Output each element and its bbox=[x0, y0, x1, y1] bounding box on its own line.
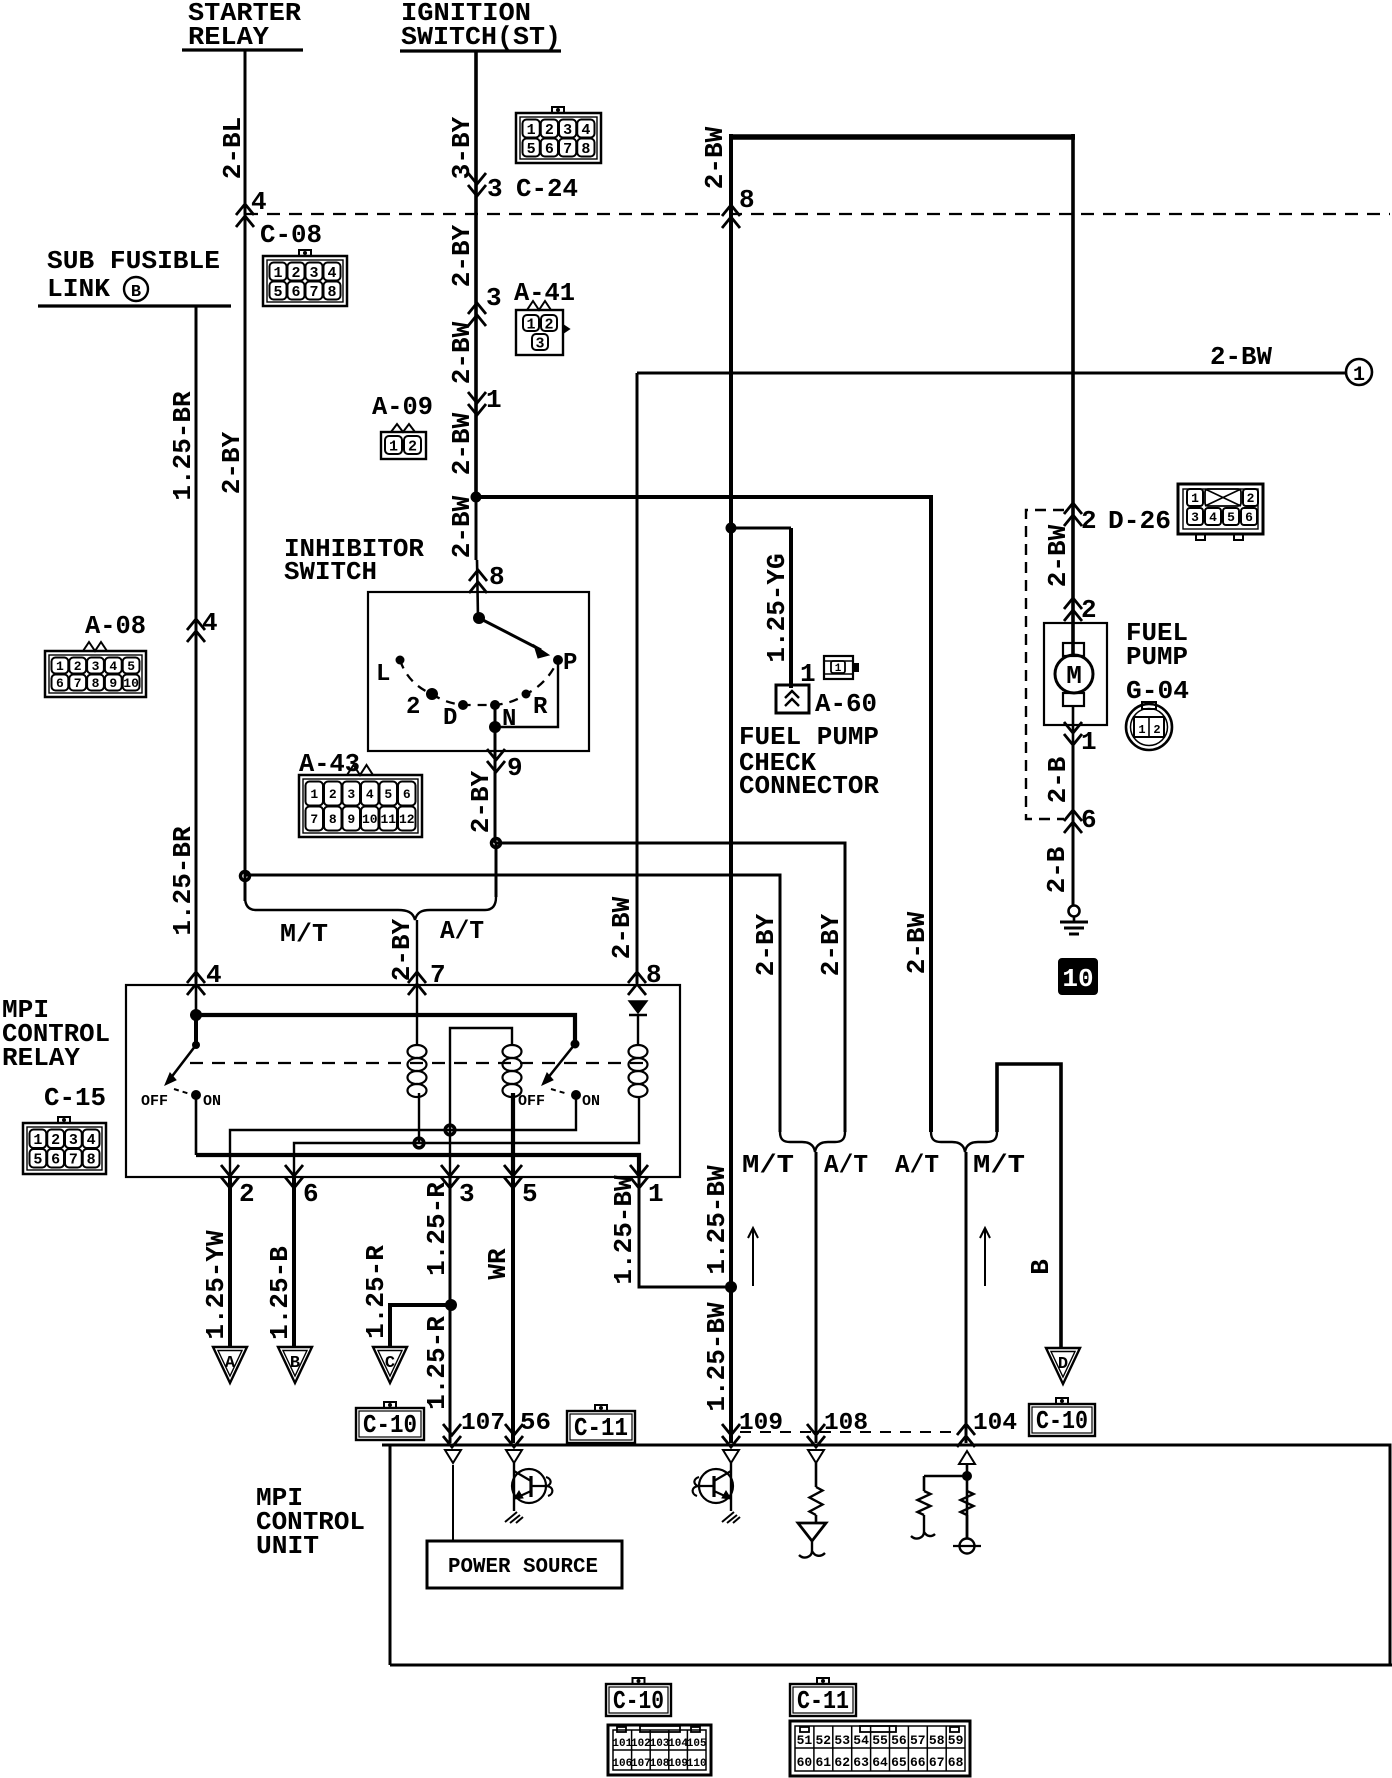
node junction relay pin4 bbox=[190, 1009, 202, 1021]
connector C-10 label box upper bbox=[384, 1402, 396, 1408]
svg-text:1.25-BW: 1.25-BW bbox=[702, 1165, 732, 1275]
svg-text:1.25-R: 1.25-R bbox=[422, 1182, 452, 1276]
svg-text:5: 5 bbox=[273, 284, 282, 301]
connector C-10 label box bottom bbox=[633, 1678, 645, 1684]
svg-text:B: B bbox=[290, 1354, 300, 1373]
svg-text:C-24: C-24 bbox=[516, 174, 578, 204]
wire 1.25-YG branch to A-60 bbox=[731, 527, 791, 530]
inhibitor pin 8 chevron bbox=[469, 570, 487, 593]
svg-text:8: 8 bbox=[92, 676, 100, 691]
wire 2-BW to terminal 1 horizontal bbox=[637, 372, 1346, 375]
flow direction arrow 104 bbox=[984, 1228, 986, 1286]
svg-text:2-BW: 2-BW bbox=[902, 911, 932, 974]
relay switch1 ON contact bbox=[191, 1090, 201, 1100]
svg-text:C-11: C-11 bbox=[797, 1686, 849, 1716]
connector C-11 label box upper bbox=[595, 1405, 607, 1411]
svg-text:2-BW: 2-BW bbox=[447, 321, 477, 384]
wire brace3 to MPI 104 bbox=[965, 1152, 968, 1443]
svg-text:1: 1 bbox=[835, 663, 842, 675]
single pin icon bbox=[824, 656, 853, 679]
svg-text:51: 51 bbox=[797, 1733, 813, 1748]
svg-text:G-04: G-04 bbox=[1126, 676, 1189, 706]
svg-text:A-09: A-09 bbox=[372, 392, 433, 422]
pin 104 output triangle bbox=[959, 1451, 975, 1464]
svg-text:2: 2 bbox=[329, 787, 337, 802]
wire WR pin5 to MPI 56 bbox=[511, 1177, 515, 1443]
diode zener pin 108 bbox=[815, 1515, 818, 1523]
connector C-11 label box bottom bbox=[817, 1678, 829, 1684]
wire P to N column bbox=[495, 660, 558, 727]
svg-text:R: R bbox=[533, 694, 548, 721]
svg-text:55: 55 bbox=[872, 1733, 888, 1748]
svg-text:3: 3 bbox=[309, 265, 318, 282]
svg-text:1: 1 bbox=[273, 265, 282, 282]
svg-text:9: 9 bbox=[109, 676, 117, 691]
svg-text:RELAY: RELAY bbox=[2, 1043, 80, 1073]
svg-text:3: 3 bbox=[92, 659, 100, 674]
ground symbol Q1 bbox=[505, 1512, 523, 1523]
svg-text:2: 2 bbox=[1081, 506, 1097, 536]
svg-text:A/T: A/T bbox=[824, 1150, 868, 1180]
resistor R3 right branch bbox=[961, 1491, 974, 1515]
svg-text:103: 103 bbox=[650, 1738, 670, 1750]
svg-text:RELAY: RELAY bbox=[188, 22, 269, 52]
svg-text:2-BW: 2-BW bbox=[607, 896, 637, 959]
contact N dot bbox=[490, 700, 500, 710]
connector A-43 bbox=[299, 775, 422, 837]
svg-text:2-BY: 2-BY bbox=[466, 770, 496, 833]
wire pin3 to coil2 node bbox=[450, 1028, 512, 1177]
svg-text:A-08: A-08 bbox=[85, 611, 146, 641]
MPI pin 107 chevron bbox=[443, 1424, 461, 1447]
svg-text:6: 6 bbox=[1245, 510, 1253, 525]
svg-text:4: 4 bbox=[251, 187, 267, 217]
svg-text:M: M bbox=[1066, 661, 1082, 691]
svg-text:OFF: OFF bbox=[518, 1093, 545, 1110]
svg-text:61: 61 bbox=[815, 1755, 831, 1770]
wire 2-BW main vertical to MPI pin 109 bbox=[729, 134, 733, 1443]
svg-text:2: 2 bbox=[544, 316, 553, 333]
fuel pump pin 2 chevron bbox=[1064, 598, 1082, 621]
svg-text:1.25-B: 1.25-B bbox=[265, 1246, 295, 1340]
relay output row to pin 1 thick bbox=[196, 1155, 639, 1177]
circled B symbol bbox=[124, 277, 148, 301]
ground symbol Q2 bbox=[722, 1512, 740, 1523]
relay switch2 arm bbox=[547, 1044, 575, 1079]
connector C-24 bbox=[516, 113, 601, 163]
svg-text:6: 6 bbox=[545, 141, 554, 158]
connector C-08 bbox=[263, 256, 347, 306]
svg-text:3: 3 bbox=[69, 1132, 78, 1149]
svg-text:2-BW: 2-BW bbox=[447, 412, 477, 475]
node junction pin1 to main bbox=[725, 1281, 737, 1293]
svg-text:2: 2 bbox=[291, 265, 300, 282]
svg-text:11: 11 bbox=[380, 812, 396, 827]
wire starter relay 2-BL vertical bbox=[244, 50, 247, 901]
svg-text:C: C bbox=[385, 1354, 395, 1373]
relay switch2 OFF-ON dashed link bbox=[551, 1089, 568, 1094]
svg-text:2: 2 bbox=[1247, 491, 1255, 506]
connector C-24 pin 3 chevron bbox=[468, 173, 486, 196]
svg-text:106: 106 bbox=[612, 1758, 632, 1770]
svg-text:B: B bbox=[1026, 1259, 1056, 1275]
svg-text:ON: ON bbox=[203, 1093, 221, 1110]
svg-text:1: 1 bbox=[56, 659, 64, 674]
svg-text:7: 7 bbox=[74, 676, 82, 691]
relay diode pin8 bbox=[629, 1001, 647, 1013]
svg-text:2: 2 bbox=[545, 122, 554, 139]
svg-text:6: 6 bbox=[303, 1179, 319, 1209]
svg-text:LINK: LINK bbox=[47, 274, 110, 304]
node junction inhibitor A/T split bbox=[492, 839, 501, 848]
relay coil1 bbox=[408, 1045, 427, 1058]
svg-text:C-15: C-15 bbox=[44, 1083, 106, 1113]
svg-text:63: 63 bbox=[853, 1755, 869, 1770]
svg-text:3: 3 bbox=[347, 787, 355, 802]
svg-text:3: 3 bbox=[1191, 510, 1199, 525]
svg-text:66: 66 bbox=[910, 1755, 926, 1770]
svg-text:9: 9 bbox=[347, 812, 355, 827]
svg-text:D: D bbox=[443, 705, 457, 732]
svg-text:6: 6 bbox=[51, 1152, 60, 1169]
svg-text:UNIT: UNIT bbox=[256, 1531, 319, 1561]
svg-text:7: 7 bbox=[563, 141, 572, 158]
relay coil2 bbox=[503, 1045, 522, 1058]
svg-text:1.25-BR: 1.25-BR bbox=[168, 826, 198, 936]
wire B to triangle D bbox=[997, 1064, 1061, 1348]
svg-text:109: 109 bbox=[668, 1758, 688, 1770]
svg-text:64: 64 bbox=[872, 1755, 888, 1770]
wire 107 to power source bbox=[452, 1465, 454, 1541]
svg-text:2-BL: 2-BL bbox=[218, 117, 248, 179]
node junction 1.25-R branch bbox=[445, 1299, 457, 1311]
svg-text:ON: ON bbox=[582, 1093, 600, 1110]
svg-text:A/T: A/T bbox=[895, 1150, 939, 1180]
wire 2-BW top bus horizontal bbox=[729, 134, 1075, 140]
svg-text:2-BY: 2-BY bbox=[447, 224, 477, 287]
svg-text:53: 53 bbox=[834, 1733, 850, 1748]
wire N output bbox=[494, 705, 497, 843]
connector C-11 pinout bbox=[790, 1721, 970, 1776]
svg-text:1: 1 bbox=[33, 1132, 42, 1149]
svg-text:N: N bbox=[502, 706, 516, 733]
contact P dot bbox=[553, 655, 563, 665]
svg-text:SWITCH: SWITCH bbox=[284, 557, 377, 587]
svg-text:4: 4 bbox=[366, 787, 374, 802]
svg-text:SWITCH(ST): SWITCH(ST) bbox=[401, 22, 561, 52]
svg-text:58: 58 bbox=[929, 1733, 945, 1748]
svg-text:A/T: A/T bbox=[440, 916, 484, 946]
inhibitor switch box bbox=[368, 592, 589, 751]
svg-text:1: 1 bbox=[1081, 727, 1097, 757]
svg-text:1: 1 bbox=[1353, 364, 1365, 387]
grounding point 10 black box bbox=[1059, 959, 1097, 994]
svg-text:2: 2 bbox=[1153, 723, 1160, 737]
wire 2-B pump to tank unit bbox=[1072, 744, 1075, 906]
fuel pump box bbox=[1044, 623, 1107, 725]
svg-text:4: 4 bbox=[87, 1132, 96, 1149]
MPI internal dashed link bbox=[740, 1431, 958, 1433]
svg-text:56: 56 bbox=[891, 1733, 907, 1748]
svg-text:1.25-BW: 1.25-BW bbox=[609, 1175, 639, 1285]
node junction below N bbox=[489, 721, 501, 733]
fuel pump motor symbol M bbox=[1072, 612, 1075, 643]
svg-text:5: 5 bbox=[33, 1152, 42, 1169]
node junction starter A/T split bbox=[241, 872, 250, 881]
MPI pin 109 chevron bbox=[722, 1424, 740, 1447]
svg-text:54: 54 bbox=[853, 1733, 869, 1748]
inhibitor position dashed arc bbox=[400, 660, 558, 705]
svg-text:3: 3 bbox=[563, 122, 572, 139]
svg-text:107: 107 bbox=[461, 1410, 505, 1437]
fuel pump dashed component box bbox=[1026, 510, 1064, 819]
pin 107 input triangle bbox=[445, 1450, 461, 1463]
connector C-08 pin 4 chevron bbox=[236, 204, 254, 227]
resistor R1 pin 108 bbox=[815, 1463, 818, 1487]
svg-text:5: 5 bbox=[1227, 510, 1235, 525]
svg-text:2-BW: 2-BW bbox=[1210, 342, 1272, 372]
brace M/T-A/T for relay pin 7 bbox=[245, 897, 496, 920]
svg-text:3: 3 bbox=[535, 335, 544, 352]
svg-text:1.25-R: 1.25-R bbox=[422, 1316, 452, 1410]
svg-text:104: 104 bbox=[973, 1410, 1017, 1437]
transistor Q1 pin 56 bbox=[513, 1463, 515, 1511]
svg-text:POWER SOURCE: POWER SOURCE bbox=[448, 1556, 598, 1579]
svg-text:105: 105 bbox=[687, 1738, 707, 1750]
svg-text:10: 10 bbox=[1062, 964, 1093, 994]
svg-text:10: 10 bbox=[362, 812, 378, 827]
svg-text:10: 10 bbox=[123, 676, 139, 691]
svg-text:6: 6 bbox=[291, 284, 300, 301]
relay pin 7 chevron bbox=[408, 972, 426, 995]
sensor network pin 104 bbox=[966, 1464, 969, 1538]
wire switch1 ON to output row bbox=[195, 1095, 198, 1155]
svg-text:2: 2 bbox=[406, 694, 420, 721]
svg-text:2: 2 bbox=[1081, 595, 1097, 625]
ground symbol fuel pump bbox=[1069, 906, 1080, 917]
svg-text:12: 12 bbox=[399, 812, 415, 827]
svg-text:7: 7 bbox=[309, 284, 318, 301]
MPI control relay box bbox=[126, 985, 680, 1177]
svg-text:2-B: 2-B bbox=[1043, 756, 1073, 803]
connector A-60 box with chevron bbox=[776, 685, 809, 713]
wire 2-BW A/T feed bbox=[476, 497, 931, 1132]
svg-text:P: P bbox=[563, 650, 577, 677]
wire 2-BW fuel pump feed vertical bbox=[1071, 134, 1075, 656]
fuel pump pin 1 chevron bbox=[1064, 722, 1082, 745]
svg-text:101: 101 bbox=[612, 1738, 632, 1750]
svg-text:57: 57 bbox=[910, 1733, 926, 1748]
connector A-09 pin 1 chevron bbox=[468, 392, 486, 415]
relay switch1 OFF-ON dashed link bbox=[174, 1089, 190, 1094]
svg-text:1: 1 bbox=[648, 1179, 664, 1209]
svg-text:67: 67 bbox=[929, 1755, 945, 1770]
svg-text:1.25-BR: 1.25-BR bbox=[168, 391, 198, 501]
svg-text:5: 5 bbox=[522, 1179, 538, 1209]
svg-text:8: 8 bbox=[739, 185, 755, 215]
svg-text:65: 65 bbox=[891, 1755, 907, 1770]
svg-text:4: 4 bbox=[1209, 510, 1217, 525]
triangle terminal D bbox=[1046, 1348, 1080, 1384]
svg-text:1: 1 bbox=[486, 385, 502, 415]
MPI pin 108 chevron bbox=[807, 1424, 825, 1447]
wire brace2 to MPI 108 bbox=[815, 1152, 818, 1443]
svg-text:8: 8 bbox=[581, 141, 590, 158]
svg-text:M/T: M/T bbox=[973, 1150, 1025, 1180]
terminal circle pin 104 bbox=[960, 1539, 975, 1554]
inhibitor pin 9 chevron bbox=[487, 749, 505, 772]
relay pin 1 chevron bbox=[630, 1165, 648, 1188]
svg-text:2-B: 2-B bbox=[1042, 846, 1072, 893]
svg-text:B: B bbox=[131, 283, 141, 302]
svg-text:SUB FUSIBLE: SUB FUSIBLE bbox=[47, 246, 220, 276]
svg-text:5: 5 bbox=[527, 141, 536, 158]
node junction ignition to fuel-pump-relay feed bbox=[471, 492, 482, 503]
wire 2-BW relay pin 8 vertical bbox=[636, 373, 639, 983]
MPI pin 104 chevron bbox=[957, 1424, 975, 1447]
svg-text:1.25-R: 1.25-R bbox=[361, 1245, 391, 1339]
node junction A-60 branch bbox=[726, 523, 737, 534]
svg-text:4: 4 bbox=[581, 122, 590, 139]
svg-text:2: 2 bbox=[408, 438, 417, 455]
relay internal bus pin4 to switch2 bbox=[196, 1015, 575, 1044]
brace A/T-M/T for MPI 104 bbox=[931, 1132, 997, 1152]
wire 2-BW into inhibitor bbox=[475, 497, 478, 560]
svg-text:2-BY: 2-BY bbox=[751, 913, 781, 976]
svg-text:3-BY: 3-BY bbox=[447, 116, 477, 179]
svg-text:D: D bbox=[1058, 1355, 1068, 1374]
svg-text:2-BY: 2-BY bbox=[387, 918, 417, 981]
wire ignition switch 3-BY/2-BY/2-BW vertical bbox=[474, 51, 478, 497]
svg-text:CONNECTOR: CONNECTOR bbox=[739, 771, 879, 801]
svg-text:C-11: C-11 bbox=[574, 1413, 628, 1443]
connector A-08 bbox=[45, 651, 146, 697]
svg-text:108: 108 bbox=[650, 1758, 670, 1770]
wire 1.25-BW pin1 to main 2-BW bbox=[639, 1177, 731, 1287]
wire brace1 to relay pin 7 bbox=[416, 920, 418, 983]
connector A-41 bbox=[516, 310, 563, 355]
svg-text:8: 8 bbox=[87, 1152, 96, 1169]
wire coil1 top from pin7 bbox=[416, 983, 418, 1046]
svg-text:2-BW: 2-BW bbox=[1043, 524, 1073, 587]
wire 2-BY inhibitor A/T to brace3 bbox=[496, 843, 845, 1132]
svg-text:56: 56 bbox=[520, 1410, 551, 1437]
svg-text:C-10: C-10 bbox=[363, 1410, 417, 1440]
svg-text:2: 2 bbox=[74, 659, 82, 674]
relay mechanical linkage dashed bbox=[190, 1062, 648, 1064]
svg-text:M/T: M/T bbox=[742, 1150, 794, 1180]
contact D dot bbox=[458, 700, 468, 710]
svg-text:L: L bbox=[376, 661, 390, 688]
pin 109 input triangle bbox=[723, 1450, 739, 1463]
pin 108 input triangle bbox=[808, 1450, 824, 1463]
svg-text:A: A bbox=[225, 1354, 236, 1373]
flow direction arrow 109 bbox=[752, 1228, 754, 1286]
wire inhibitor common bbox=[477, 560, 478, 618]
connector C-15 bbox=[23, 1123, 106, 1174]
relay coil3 bbox=[629, 1045, 648, 1058]
relay pin 3 chevron bbox=[441, 1165, 459, 1188]
svg-text:6: 6 bbox=[56, 676, 64, 691]
contact L dot bbox=[396, 656, 405, 665]
relay ground row pin6 to coil3 bbox=[294, 1097, 639, 1177]
svg-text:68: 68 bbox=[948, 1755, 964, 1770]
contact R dot bbox=[522, 690, 531, 699]
svg-text:9: 9 bbox=[507, 753, 523, 783]
svg-text:7: 7 bbox=[69, 1152, 78, 1169]
pin 56 input triangle bbox=[506, 1450, 522, 1463]
svg-text:1: 1 bbox=[527, 122, 536, 139]
wire diode to coil3 bbox=[637, 1015, 639, 1046]
svg-text:1: 1 bbox=[1138, 723, 1145, 737]
svg-text:C-10: C-10 bbox=[613, 1686, 664, 1716]
svg-text:59: 59 bbox=[948, 1733, 964, 1748]
svg-text:C-08: C-08 bbox=[260, 220, 322, 250]
connector C-10 label box right bbox=[1056, 1398, 1068, 1404]
inhibitor common pivot bbox=[473, 612, 485, 624]
svg-text:5: 5 bbox=[384, 787, 392, 802]
relay pin 2 chevron bbox=[221, 1165, 239, 1188]
svg-text:2-BW: 2-BW bbox=[700, 126, 730, 189]
terminal circled 1 bbox=[1346, 359, 1372, 385]
svg-text:1: 1 bbox=[526, 316, 535, 333]
tank unit pin 6 chevron bbox=[1064, 810, 1082, 833]
svg-text:3: 3 bbox=[487, 174, 503, 204]
svg-text:1: 1 bbox=[389, 438, 398, 455]
triangle terminal A bbox=[213, 1347, 247, 1383]
wire relay pin4 internal bbox=[195, 985, 198, 1015]
connector D-26 pin 2 chevron bbox=[1064, 503, 1082, 526]
svg-text:6: 6 bbox=[403, 787, 411, 802]
relay pin 6 chevron bbox=[285, 1165, 303, 1188]
svg-text:8: 8 bbox=[329, 812, 337, 827]
node junction coil1 to ground row bbox=[414, 1138, 424, 1148]
svg-text:52: 52 bbox=[815, 1733, 831, 1748]
svg-text:1.25-YG: 1.25-YG bbox=[762, 553, 792, 662]
svg-text:5: 5 bbox=[127, 659, 135, 674]
svg-text:2-BW: 2-BW bbox=[447, 495, 477, 558]
relay pin 4 chevron bbox=[187, 972, 205, 995]
relay pin 8 chevron bbox=[628, 972, 646, 995]
svg-text:8: 8 bbox=[489, 562, 505, 592]
contact 2 dot bbox=[426, 688, 438, 700]
svg-text:3: 3 bbox=[459, 1179, 475, 1209]
svg-text:102: 102 bbox=[631, 1738, 651, 1750]
svg-text:7: 7 bbox=[310, 812, 318, 827]
svg-text:2-BY: 2-BY bbox=[217, 431, 247, 494]
svg-text:M/T: M/T bbox=[280, 919, 328, 949]
svg-text:1: 1 bbox=[1191, 491, 1199, 506]
transistor Q2 pin 109 bbox=[730, 1463, 732, 1511]
connector A-09 bbox=[381, 432, 426, 459]
connector C-10 pinout bbox=[608, 1725, 711, 1775]
wire 1.25-R branch to triangle C bbox=[390, 1305, 451, 1347]
wire short stubs into brace1 bbox=[495, 843, 498, 897]
svg-text:4: 4 bbox=[327, 265, 336, 282]
svg-text:C-10: C-10 bbox=[1036, 1406, 1088, 1436]
svg-text:4: 4 bbox=[109, 659, 117, 674]
svg-text:4: 4 bbox=[202, 608, 218, 638]
wire coil2 to pin 5 thick bbox=[511, 1093, 515, 1177]
brace M/T-A/T for MPI 108 bbox=[780, 1132, 845, 1152]
resistor R2 left branch bbox=[923, 1476, 926, 1491]
MPI pin 56 chevron bbox=[505, 1424, 523, 1447]
svg-text:8: 8 bbox=[327, 284, 336, 301]
node junction pin3 row bbox=[445, 1125, 455, 1135]
svg-text:1.25-BW: 1.25-BW bbox=[702, 1302, 732, 1412]
svg-text:1: 1 bbox=[310, 787, 318, 802]
connector A-41 pin 3 chevron bbox=[468, 303, 486, 326]
